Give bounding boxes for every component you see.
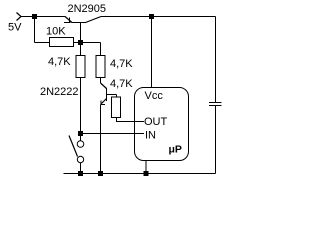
wire Q2 emitter to ground rail: [100, 104, 102, 173]
wire right rail upper: [215, 17, 217, 103]
resistor 4,7K left: [76, 56, 85, 78]
transistor Q1 2N2905 PNP: [64, 17, 101, 43]
node junction at 5V rail: [32, 14, 37, 19]
wire right rail lower: [215, 106, 217, 174]
resistor 10K: [50, 38, 74, 47]
wire base node to left 4,7K: [80, 43, 82, 56]
svg-text:4,7K: 4,7K: [110, 58, 133, 70]
wire 5V rail to emitter: [21, 16, 66, 18]
node junction microcontroller ground: [144, 171, 149, 176]
wire 10K to base node: [74, 42, 101, 44]
wire junction down to 10K: [34, 17, 36, 43]
capacitor C1: [209, 103, 222, 106]
wire base resistor to OUT pin: [117, 118, 145, 122]
svg-text:2N2222: 2N2222: [40, 86, 79, 98]
resistor 4,7K base: [112, 97, 121, 118]
wire Q2 base to 4,7K base resistor: [116, 95, 118, 98]
svg-text:Vcc: Vcc: [145, 90, 164, 102]
wire right 4,7K to Q2 collector: [100, 78, 102, 84]
wire collector rail to right edge: [101, 16, 216, 18]
microcontroller U1 box: [135, 88, 189, 161]
node junction emitter ground: [98, 171, 103, 176]
node junction Vcc drop: [149, 14, 154, 19]
switch S1: [69, 134, 84, 174]
svg-text:5V: 5V: [8, 22, 22, 34]
wire left 4,7K down to switch node: [80, 78, 82, 134]
resistor 4,7K right: [96, 56, 105, 78]
wire Vcc drop to microcontroller: [151, 17, 153, 88]
wire base node to right 4,7K: [100, 43, 102, 56]
wire ground rail: [64, 173, 216, 175]
wire to 10K left terminal: [35, 42, 50, 44]
node junction switch bottom: [78, 171, 83, 176]
svg-text:μP: μP: [169, 144, 182, 156]
svg-text:2N2905: 2N2905: [68, 3, 107, 15]
svg-text:OUT: OUT: [144, 116, 168, 128]
wire IN line from switch to microcontroller: [81, 133, 145, 135]
wire ground pin of microcontroller: [145, 161, 147, 174]
svg-text:IN: IN: [145, 130, 156, 142]
svg-text:4,7K: 4,7K: [48, 56, 71, 68]
svg-text:4,7K: 4,7K: [110, 78, 133, 90]
node base junction: [78, 40, 83, 45]
transistor Q2 2N2222 NPN: [101, 83, 117, 104]
input terminal 5V arrow: [17, 13, 22, 21]
svg-text:10K: 10K: [46, 26, 66, 38]
node junction switch top: [78, 131, 83, 136]
